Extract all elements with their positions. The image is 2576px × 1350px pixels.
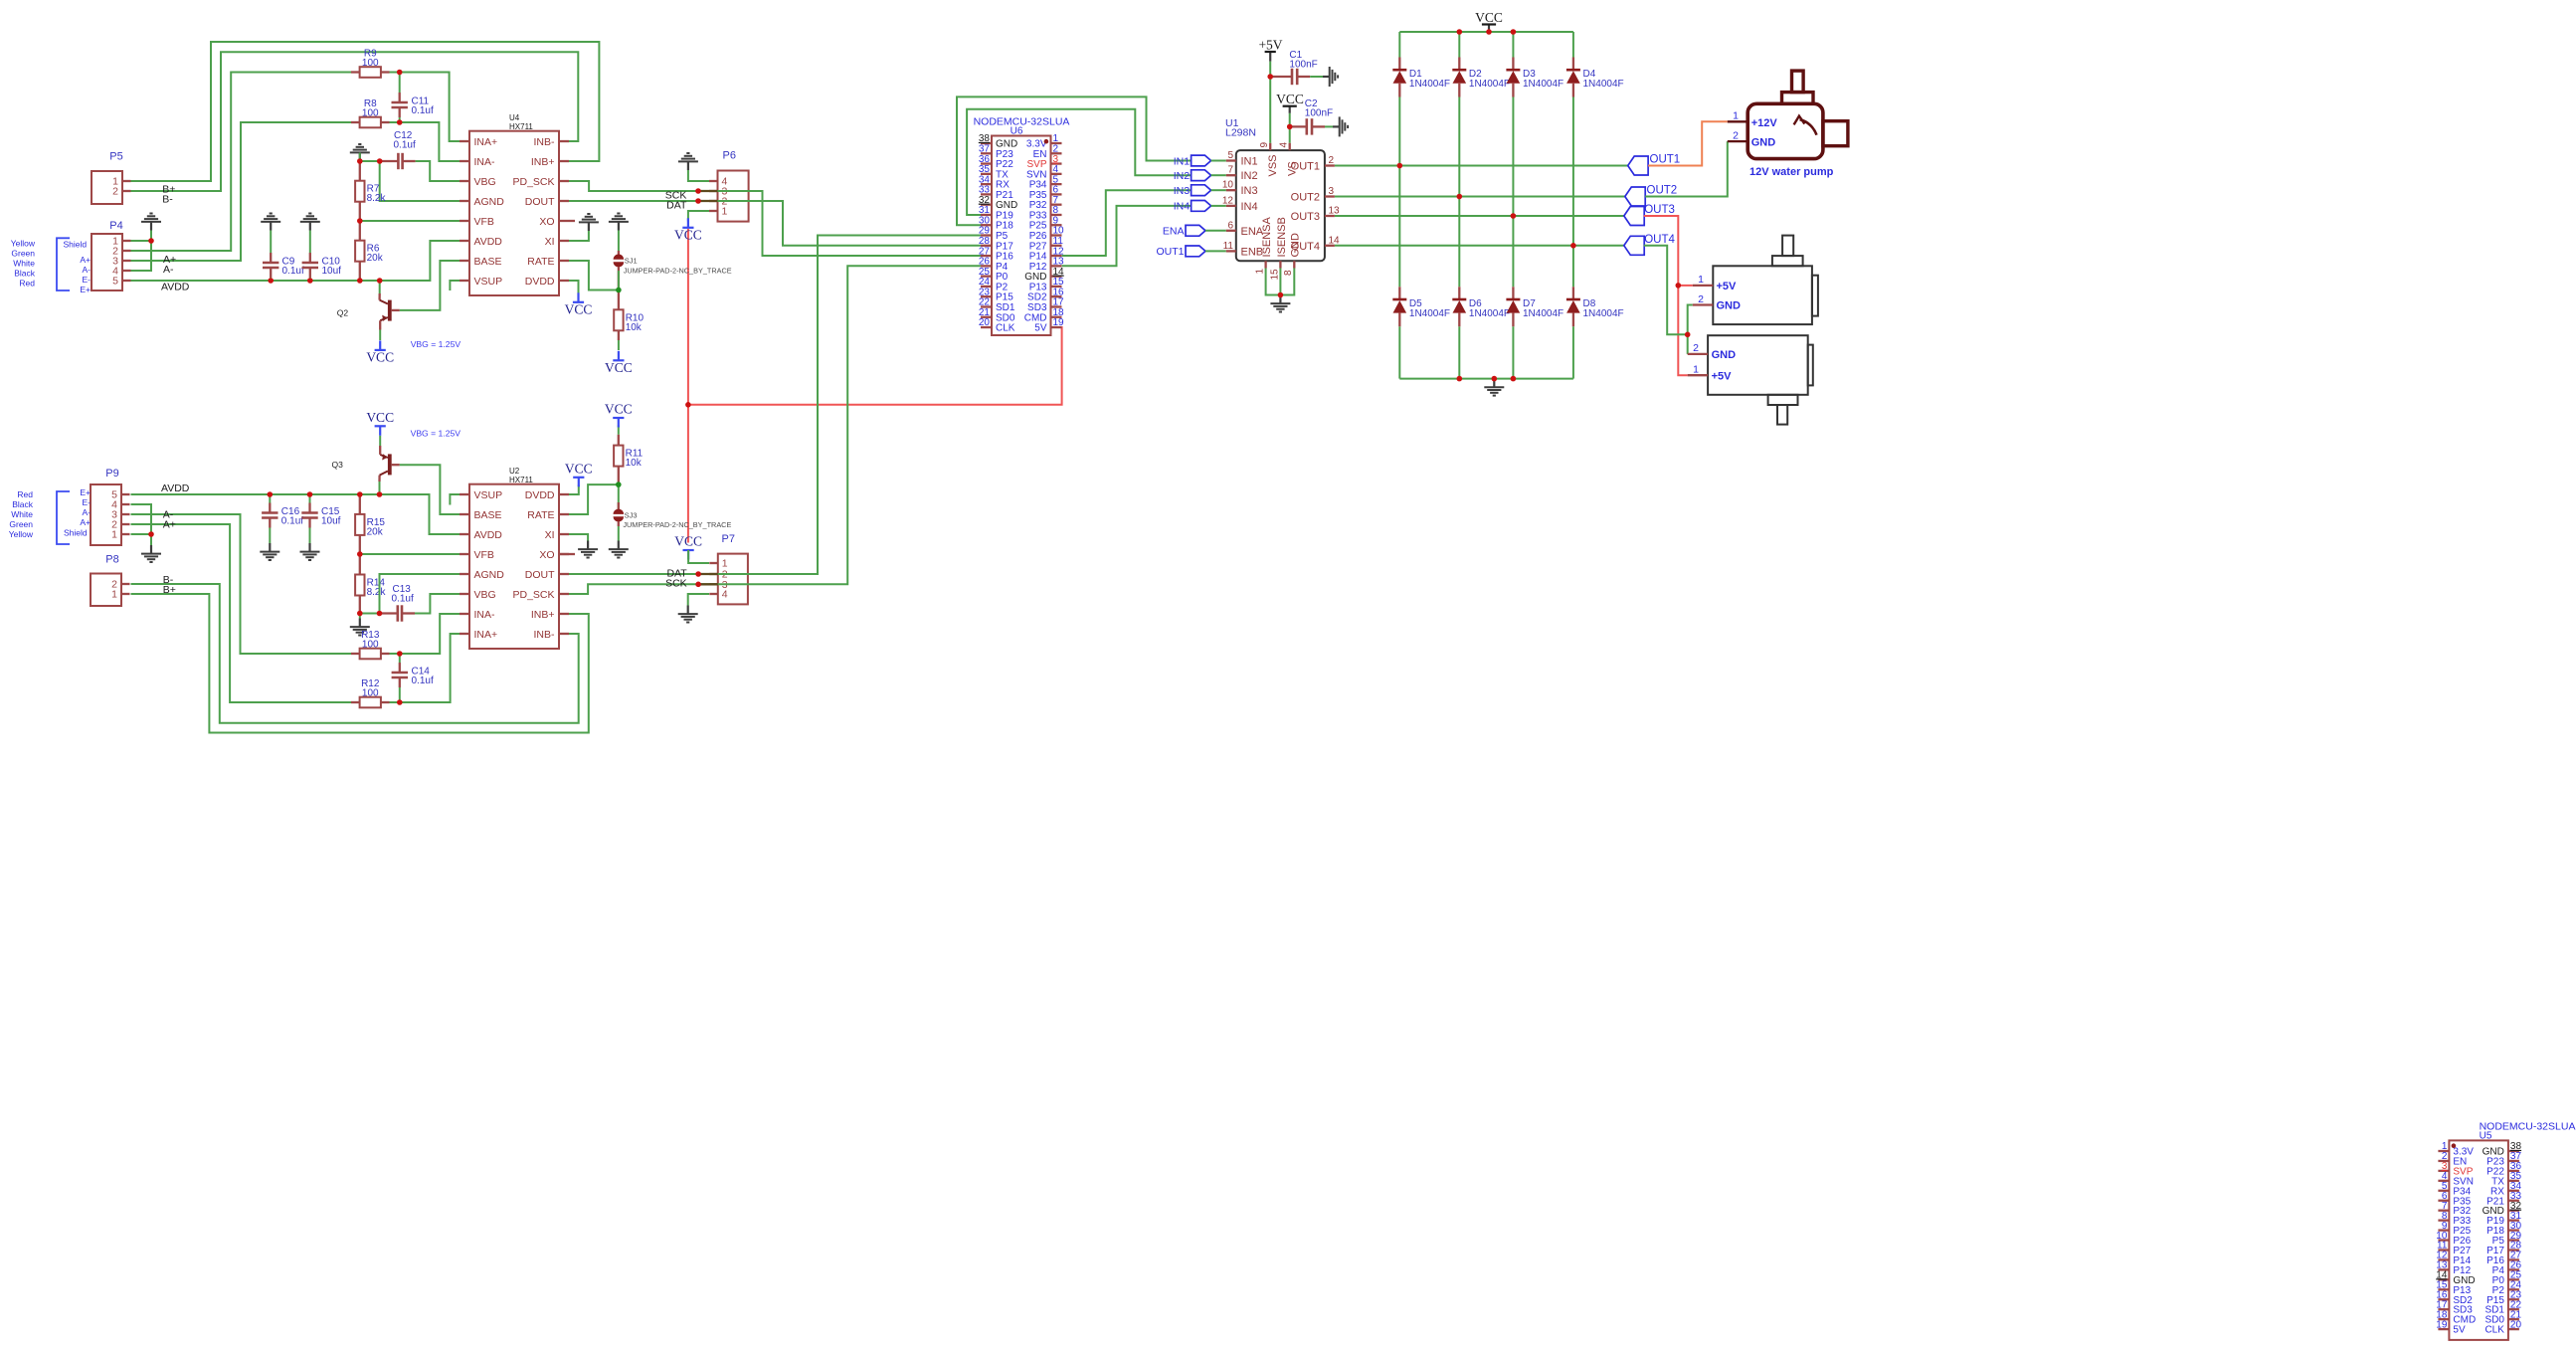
svg-text:GND: GND [1717, 300, 1742, 312]
wire C11 node to INA+ [400, 73, 460, 142]
wire DOUT to P7.2 and up to U6 P5 (DAT) [569, 236, 981, 575]
svg-text:B-: B- [162, 193, 173, 205]
capacitor C2 100nF [1290, 125, 1307, 127]
ground diode rail [1493, 379, 1495, 388]
wire VS to VCC [1289, 113, 1291, 143]
svg-text:0.1uf: 0.1uf [282, 266, 304, 277]
svg-text:GND: GND [1751, 136, 1776, 148]
diode D7 1N4004F [1512, 287, 1514, 299]
svg-text:VCC: VCC [1475, 10, 1503, 25]
svg-text:7: 7 [1227, 165, 1233, 176]
svg-text:19: 19 [1053, 317, 1065, 328]
svg-text:P8: P8 [105, 554, 118, 566]
ground C2 [1333, 125, 1340, 127]
wire C12 node [360, 160, 380, 162]
svg-text:Q2: Q2 [337, 308, 349, 318]
svg-text:1: 1 [1698, 274, 1704, 286]
wire SJ3 to gnd [618, 521, 620, 526]
resistor R8 100 [351, 121, 360, 123]
svg-text:E+: E+ [80, 487, 91, 497]
bracket P4 labels [57, 238, 70, 290]
wire DOUT to P6.2 and onwards (DAT) [569, 201, 981, 246]
svg-text:OUT3: OUT3 [1291, 211, 1320, 223]
vcc flag DVDD U4 [573, 301, 584, 303]
junction [1457, 376, 1463, 382]
wire IN1 flag to pin [1211, 160, 1226, 162]
wire gnd to C12 node [359, 153, 361, 162]
wire net A- from P4.3 to R8 [131, 122, 352, 261]
svg-text:11: 11 [1223, 241, 1234, 252]
svg-text:E-: E- [83, 275, 92, 285]
flag OUT1 right [1628, 156, 1648, 175]
wire IN4 flag to pin [1211, 205, 1226, 207]
vcc flag Q3 [375, 425, 386, 427]
svg-text:U4: U4 [509, 113, 520, 122]
svg-text:+12V: +12V [1751, 117, 1778, 129]
flag OUT1 at ENB [1186, 246, 1205, 257]
svg-text:VCC: VCC [674, 227, 702, 242]
wire XI to gnd b [569, 534, 588, 541]
ground below C16 [269, 543, 271, 552]
wire C11 node to INA- [400, 122, 460, 161]
svg-text:ISENSB: ISENSB [1276, 217, 1288, 257]
ground XI U4 [588, 222, 590, 231]
junction [1492, 376, 1498, 382]
svg-text:IN1: IN1 [1241, 156, 1258, 168]
pin1 mark U6 [1044, 139, 1049, 144]
wire red net down to P7 VCC [687, 405, 689, 543]
svg-text:XO: XO [539, 216, 554, 228]
svg-text:White: White [13, 259, 35, 269]
capacitor C13 0.1uf [380, 612, 398, 614]
svg-text:INA+: INA+ [474, 629, 498, 641]
svg-text:DOUT: DOUT [525, 196, 555, 208]
wire VCC to P7.1 [688, 550, 709, 563]
motor 1 (upper) [1713, 266, 1812, 324]
svg-text:P6: P6 [723, 150, 736, 162]
svg-text:P4: P4 [109, 220, 122, 232]
wire bottom diode rail [1399, 378, 1573, 380]
svg-text:Black: Black [14, 269, 36, 279]
svg-text:JUMPER-PAD-2-NC_BY_TRACE: JUMPER-PAD-2-NC_BY_TRACE [624, 267, 732, 276]
svg-text:0.1uf: 0.1uf [412, 675, 434, 686]
svg-text:VFB: VFB [474, 216, 494, 228]
wire rail to D2 [1458, 32, 1460, 58]
wire OUT1 flag to pin [1205, 250, 1226, 252]
wire C12 to VBG [421, 161, 460, 181]
ground above P6.4 [687, 161, 689, 170]
wire R13 to C14 node [390, 653, 400, 655]
ground below SJ3 [618, 541, 620, 550]
connector P7 [718, 554, 748, 605]
svg-text:CLK: CLK [996, 323, 1015, 334]
svg-text:8.2k: 8.2k [367, 193, 387, 204]
connector P8 [91, 574, 121, 607]
svg-text:OUT2: OUT2 [1647, 185, 1678, 197]
ground P4 pin1 [150, 222, 152, 231]
svg-text:U6: U6 [1011, 126, 1023, 137]
resistor R11 10k [618, 435, 620, 446]
flag OUT3 right [1624, 207, 1644, 226]
bracket P9 labels [57, 491, 70, 544]
motor 2 (lower) [1708, 335, 1808, 395]
pin GND U1 [1293, 261, 1295, 268]
svg-text:White: White [11, 509, 33, 519]
diode D8 1N4004F [1572, 287, 1574, 299]
wire VFB row b [360, 553, 460, 555]
svg-text:6: 6 [1227, 220, 1233, 231]
svg-text:L298N: L298N [1225, 127, 1256, 139]
wire D6 to bottom rail [1458, 326, 1460, 378]
wire D1 to OUT1 row [1398, 97, 1400, 166]
svg-text:Shield: Shield [64, 240, 88, 250]
wire rail to D4 [1572, 32, 1574, 58]
junction [1397, 163, 1403, 169]
pump rotation arrow [1800, 119, 1817, 135]
junction [307, 278, 313, 284]
wire net A+ from P4.2 to R9 [131, 73, 352, 252]
svg-text:1N4004F: 1N4004F [1469, 79, 1510, 90]
ground U1 bottom [1279, 295, 1281, 304]
junction [1287, 124, 1293, 130]
junction [1278, 292, 1284, 298]
svg-text:1N4004F: 1N4004F [1409, 308, 1450, 319]
pin IN4 U1 [1226, 205, 1236, 207]
junction [148, 531, 154, 537]
svg-text:INB-: INB- [534, 629, 556, 641]
jumper SJ1 [618, 251, 620, 255]
junction [357, 551, 363, 557]
junction [695, 188, 701, 194]
svg-text:2: 2 [1698, 293, 1704, 305]
junction [695, 571, 701, 577]
wire DVDD to VCC [569, 281, 579, 295]
svg-text:A+: A+ [80, 517, 91, 527]
junction [1511, 376, 1517, 382]
wire PD_SCK to P6.3 and onwards (SCK) [569, 181, 981, 256]
pin IN1 U1 [1226, 159, 1236, 161]
svg-text:1: 1 [722, 206, 728, 218]
junction [397, 699, 403, 705]
wire rail to D3 [1512, 32, 1514, 58]
diode D3 1N4004F [1512, 58, 1514, 71]
stub P6.3 overlay [699, 190, 718, 192]
transistor Q2 [378, 293, 380, 300]
junction [1511, 29, 1517, 35]
vcc flag DVDD U2 [573, 477, 584, 479]
ground XI U2 [587, 541, 589, 550]
resistor R10 10k [618, 290, 620, 310]
resistor R7 8.2k [359, 161, 361, 181]
svg-text:BASE: BASE [474, 256, 502, 268]
svg-text:VS: VS [1287, 161, 1299, 176]
pin OUT4 U1 [1325, 245, 1335, 247]
svg-text:20: 20 [979, 317, 991, 328]
svg-text:+5V: +5V [1712, 370, 1733, 382]
junction [377, 491, 383, 497]
svg-text:2: 2 [1693, 342, 1699, 354]
wire XI to gnd [569, 231, 589, 241]
junction [357, 491, 363, 497]
wire VFB row [360, 220, 460, 222]
wire VCC red net down [687, 229, 689, 405]
pin ISENSA U1 [1264, 261, 1266, 268]
svg-text:NODEMCU-32SLUA: NODEMCU-32SLUA [2480, 1120, 2576, 1132]
svg-text:ENB: ENB [1241, 246, 1264, 258]
wire C13 node [360, 613, 380, 615]
wire VSUP dangling b [450, 494, 460, 505]
pin XO stub [569, 220, 575, 222]
svg-text:A-: A- [83, 507, 92, 517]
wire U6 P18 to IN1 [957, 96, 1192, 225]
wire gnd to P6.4 [688, 170, 709, 181]
vcc flag R11 [613, 417, 624, 419]
svg-text:VCC: VCC [366, 349, 394, 364]
wire AGND branch [380, 161, 460, 201]
jumper SJ3 [618, 484, 620, 509]
junction [616, 482, 622, 487]
wire OUT4 to motors GND [1644, 246, 1688, 334]
junction [1486, 29, 1492, 35]
svg-text:DVDD: DVDD [525, 276, 555, 288]
pin IN3 U1 [1226, 189, 1236, 191]
svg-text:GND: GND [1290, 233, 1302, 258]
svg-text:CLK: CLK [2484, 1325, 2504, 1336]
svg-text:IN2: IN2 [1241, 170, 1258, 182]
svg-text:10uf: 10uf [322, 266, 342, 277]
svg-text:2: 2 [112, 186, 118, 198]
svg-text:1N4004F: 1N4004F [1523, 79, 1564, 90]
svg-text:IN1: IN1 [1174, 155, 1191, 167]
svg-text:VSUP: VSUP [474, 489, 503, 501]
svg-text:VBG: VBG [474, 589, 496, 601]
chip U2 HX711 [469, 484, 559, 649]
svg-text:4: 4 [1279, 142, 1290, 148]
svg-text:VSUP: VSUP [474, 276, 503, 288]
wire net A- b from P9.3 to R13 [131, 514, 352, 654]
capacitor C12 0.1uf [380, 160, 399, 162]
junction [377, 158, 383, 164]
svg-text:IN4: IN4 [1174, 201, 1191, 213]
junction [397, 651, 403, 657]
svg-text:A-: A- [163, 264, 174, 276]
flag IN3 [1192, 185, 1211, 196]
chip U1 L298N [1236, 150, 1325, 261]
wire IN2 flag to pin [1211, 174, 1226, 176]
wire Q2 collector to BASE pin [400, 261, 460, 310]
pin1 mark U5 [2452, 1143, 2457, 1148]
svg-text:0.1uf: 0.1uf [281, 516, 303, 527]
wire U6 P12 to IN4 [1062, 206, 1192, 266]
svg-text:1: 1 [1693, 364, 1699, 376]
svg-text:VCC: VCC [565, 301, 593, 316]
svg-text:OUT1: OUT1 [1650, 154, 1681, 166]
junction [1457, 29, 1463, 35]
svg-text:VCC: VCC [674, 534, 702, 549]
wire U6 P14 to IN3 [1062, 190, 1192, 256]
svg-text:10: 10 [1222, 180, 1234, 191]
junction [695, 198, 701, 204]
svg-text:0.1uf: 0.1uf [412, 105, 434, 116]
diode D1 1N4004F [1398, 58, 1400, 71]
junction [357, 218, 363, 224]
svg-text:INB+: INB+ [531, 609, 555, 621]
svg-text:INA-: INA- [474, 156, 496, 168]
svg-text:AVDD: AVDD [474, 529, 503, 541]
wire to motor2 GND [1687, 334, 1689, 354]
svg-text:HX711: HX711 [509, 122, 533, 131]
svg-text:ENA: ENA [1163, 226, 1185, 238]
svg-text:XI: XI [545, 236, 555, 248]
wire D8 to bottom rail [1572, 326, 1574, 378]
wire net A+ b from P9.2 to R12 [131, 524, 352, 702]
svg-text:100: 100 [362, 108, 379, 119]
svg-text:15: 15 [1269, 269, 1280, 281]
svg-text:3: 3 [1329, 186, 1335, 197]
wire D3 to OUT3 row [1512, 97, 1514, 217]
svg-text:A-: A- [83, 265, 92, 275]
svg-text:AGND: AGND [474, 196, 505, 208]
pin XO stub b [559, 553, 575, 555]
svg-text:0.1uf: 0.1uf [392, 594, 414, 605]
svg-text:1N4004F: 1N4004F [1583, 308, 1624, 319]
junction [695, 582, 701, 588]
chip U4 HX711 [469, 131, 559, 295]
wire C13 to VBG b [421, 594, 460, 614]
svg-text:INB-: INB- [534, 136, 556, 148]
flag OUT4 right [1624, 236, 1644, 255]
connector P9 [91, 484, 121, 545]
pin OUT1 U1 [1325, 164, 1335, 166]
svg-text:SJ1: SJ1 [625, 257, 638, 266]
wire OUT3 to motors +5V (red) [1644, 216, 1688, 375]
svg-text:Red: Red [17, 489, 33, 499]
svg-text:P9: P9 [105, 468, 118, 480]
stub P7.3 overlay [699, 583, 718, 585]
svg-text:INB+: INB+ [531, 156, 555, 168]
+5V flag [1269, 52, 1271, 62]
svg-text:1: 1 [1733, 110, 1739, 122]
svg-text:AVDD: AVDD [474, 236, 503, 248]
svg-text:20k: 20k [367, 526, 384, 537]
wire VSS to +5V [1269, 62, 1271, 143]
stub P6.2 overlay [699, 200, 718, 202]
wire OUT4 net [1335, 245, 1624, 247]
wire R8 to C11 node [390, 121, 400, 123]
svg-text:100: 100 [362, 58, 379, 69]
pump pin 1 stub [1728, 120, 1748, 122]
capacitor C10 10uf [309, 231, 311, 254]
wire OUT1 row to D5 [1398, 166, 1400, 288]
svg-text:SJ3: SJ3 [625, 511, 638, 520]
vcc flag Q2 [375, 349, 386, 351]
junction [357, 278, 363, 284]
svg-text:INA+: INA+ [474, 136, 498, 148]
pin ENB U1 [1226, 250, 1236, 252]
junction [1511, 213, 1517, 219]
vcc flag P6 [682, 227, 693, 229]
motor2 pin1 stub [1688, 374, 1708, 376]
capacitor C14 0.1uf [399, 654, 401, 663]
svg-text:100nF: 100nF [1289, 60, 1317, 71]
svg-text:VCC: VCC [565, 461, 593, 476]
svg-text:5V: 5V [1034, 323, 1047, 334]
VCC black flag [1289, 106, 1291, 113]
svg-text:XO: XO [539, 549, 554, 561]
diode D4 1N4004F [1572, 58, 1574, 71]
junction [616, 288, 622, 293]
vcc flag P7 supply [683, 549, 694, 551]
svg-text:VCC: VCC [1276, 92, 1304, 106]
svg-text:IN2: IN2 [1174, 170, 1191, 182]
stub P7.2 overlay [699, 573, 718, 575]
transistor Q2 base wire [379, 281, 381, 293]
svg-text:DAT: DAT [666, 200, 687, 212]
svg-text:Q3: Q3 [332, 460, 344, 470]
wire R10 to VCC [618, 340, 620, 350]
svg-text:2: 2 [1733, 129, 1739, 141]
svg-text:Yellow: Yellow [9, 529, 34, 539]
svg-text:IN3: IN3 [1241, 185, 1258, 197]
svg-text:VSS: VSS [1267, 154, 1279, 176]
svg-text:B+: B+ [163, 584, 176, 596]
svg-text:BASE: BASE [474, 509, 502, 521]
svg-text:14: 14 [1329, 235, 1341, 246]
svg-text:9: 9 [1259, 142, 1270, 148]
svg-text:XI: XI [545, 529, 555, 541]
ground above C10 [309, 222, 311, 231]
wire net B- b from P8.2 to INB- [131, 584, 579, 723]
junction [357, 158, 363, 164]
wire ENA flag to pin [1205, 230, 1226, 232]
VCC flag diode rail [1488, 25, 1490, 33]
wire rail to D1 [1398, 32, 1400, 58]
pin ISENSB U1 [1279, 261, 1281, 268]
svg-text:1: 1 [111, 589, 117, 601]
wire AVDD net [131, 241, 460, 281]
wire C14 node to INA- b [400, 614, 460, 654]
pin VSS U1 [1269, 143, 1271, 150]
junction [1457, 194, 1463, 200]
wire RATE to node b [569, 484, 619, 514]
wire VCC diode rail [1399, 31, 1573, 33]
chip U6 NODEMCU-32SLUA [992, 136, 1051, 336]
svg-text:HX711: HX711 [509, 476, 533, 484]
ground below C15 [308, 543, 310, 552]
junction [268, 278, 274, 284]
wire P7.4 to gnd [688, 594, 709, 606]
svg-text:VBG: VBG [474, 176, 496, 188]
wire D5 to bottom rail [1398, 326, 1400, 378]
svg-text:OUT4: OUT4 [1644, 234, 1675, 246]
svg-text:8.2k: 8.2k [367, 587, 387, 598]
svg-text:1N4004F: 1N4004F [1409, 79, 1450, 90]
junction [377, 611, 383, 617]
junction [1676, 283, 1682, 289]
svg-text:OUT1: OUT1 [1156, 246, 1184, 258]
svg-text:VCC: VCC [605, 402, 633, 417]
wire OUT1 to pump +12V (orange) [1648, 121, 1728, 165]
svg-text:1N4004F: 1N4004F [1469, 308, 1510, 319]
motor1 pin1 stub [1693, 285, 1714, 287]
pump pin 2 stub [1728, 140, 1748, 142]
svg-text:DOUT: DOUT [525, 569, 555, 581]
junction [268, 491, 274, 497]
wire P9.1/P9.4 to gnd [131, 504, 152, 534]
transistor Q3 base wire [379, 482, 381, 494]
capacitor C15 10uf [309, 494, 311, 503]
12V water pump symbol [1748, 103, 1823, 158]
